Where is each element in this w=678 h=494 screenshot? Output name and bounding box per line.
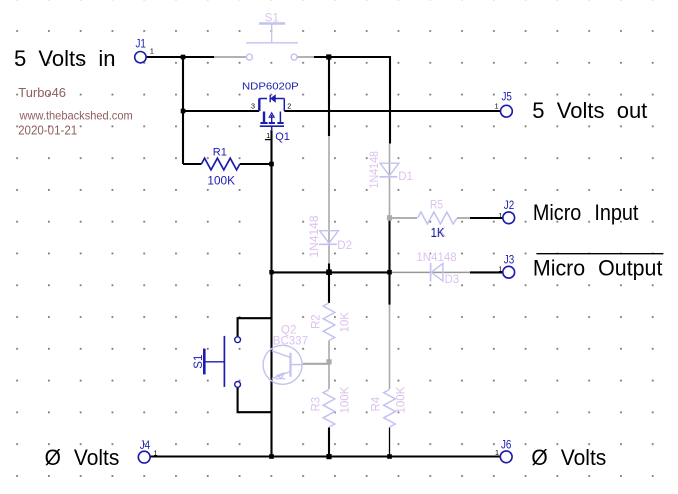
- svg-text:100K: 100K: [395, 386, 407, 413]
- svg-text:1K: 1K: [431, 225, 445, 240]
- svg-text:NDP6020P: NDP6020P: [242, 81, 299, 92]
- svg-text:D2: D2: [337, 240, 352, 252]
- svg-text:D3: D3: [445, 274, 460, 286]
- svg-text:R4: R4: [370, 396, 382, 411]
- svg-text:R5: R5: [430, 199, 443, 211]
- svg-text:S1: S1: [265, 12, 279, 24]
- svg-text:R2: R2: [310, 314, 322, 329]
- svg-text:5 Volts out: 5 Volts out: [532, 98, 648, 123]
- svg-text:Micro Input: Micro Input: [533, 200, 639, 225]
- svg-text:1: 1: [154, 448, 158, 457]
- svg-text:1N4148: 1N4148: [416, 252, 456, 264]
- svg-text:Ø Volts: Ø Volts: [531, 445, 606, 470]
- svg-text:100K: 100K: [339, 386, 351, 413]
- svg-text:www.thebackshed.com: www.thebackshed.com: [19, 108, 133, 122]
- svg-text:D1: D1: [398, 171, 413, 183]
- svg-text:J4: J4: [140, 438, 151, 452]
- svg-text:1N4148: 1N4148: [369, 151, 381, 189]
- svg-text:5 Volts in: 5 Volts in: [14, 46, 116, 71]
- svg-text:S1: S1: [193, 355, 205, 369]
- svg-text:J1: J1: [136, 37, 147, 51]
- svg-text:Micro Output: Micro Output: [533, 255, 663, 280]
- svg-text:Turbo46: Turbo46: [18, 86, 66, 100]
- svg-text:1: 1: [498, 264, 502, 273]
- svg-text:1: 1: [498, 211, 502, 220]
- svg-text:R1: R1: [213, 147, 227, 159]
- svg-text:J5: J5: [502, 89, 513, 103]
- svg-text:1N4148: 1N4148: [309, 216, 321, 258]
- svg-text:3: 3: [251, 102, 255, 111]
- svg-text:J3: J3: [504, 252, 515, 266]
- svg-text:R3: R3: [310, 397, 322, 412]
- svg-text:Q1: Q1: [275, 131, 290, 143]
- svg-text:BC337: BC337: [273, 336, 308, 348]
- svg-text:J6: J6: [501, 437, 512, 451]
- svg-text:1: 1: [495, 448, 499, 457]
- svg-text:100K: 100K: [207, 173, 235, 187]
- svg-text:1: 1: [266, 131, 270, 140]
- svg-text:J2: J2: [504, 198, 515, 212]
- svg-text:10K: 10K: [339, 312, 351, 333]
- svg-text:Ø Volts: Ø Volts: [45, 445, 120, 470]
- svg-text:2: 2: [287, 102, 291, 111]
- svg-text:1: 1: [495, 102, 499, 111]
- svg-text:2020-01-21: 2020-01-21: [18, 122, 77, 137]
- svg-text:1: 1: [150, 47, 154, 56]
